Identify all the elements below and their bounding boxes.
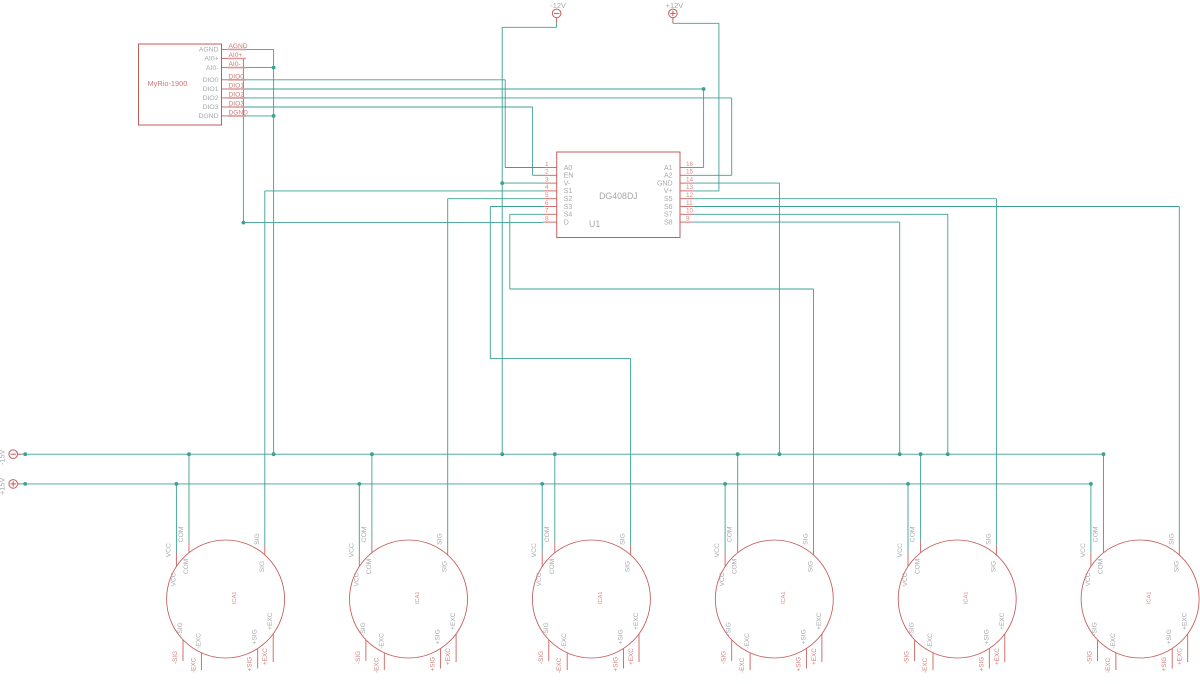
U1 pin 16 (A1) [680,167,694,169]
svg-text:VCC: VCC [714,543,721,557]
cell 2 pin -EXC [383,653,385,670]
svg-text:8: 8 [545,215,549,222]
wire V- vertical column [501,27,503,454]
svg-text:-EXC: -EXC [378,633,385,649]
cell 5 pin COM [920,542,922,553]
cell 5 pin SIG [995,545,997,555]
wire V+ horizontal [694,190,719,192]
cell 5 pin +EXC [1004,634,1006,662]
svg-text:-EXC: -EXC [1110,633,1117,649]
wire S3 vertical to cell 3 SIG [630,359,632,545]
svg-text:COM: COM [178,526,185,542]
U1 pin 3 (V-) [543,182,557,184]
U1 pin 1 (A0) [543,167,557,169]
wire A2 horizontal [694,174,732,176]
svg-text:-EXC: -EXC [1105,657,1112,673]
wire AGND horizontal [227,48,273,50]
svg-text:+EXC: +EXC [450,612,457,630]
wire S6 horizontal [694,206,1180,208]
MyRio pin DGND [222,115,228,117]
svg-text:-EXC: -EXC [195,633,202,649]
svg-text:+SIG: +SIG [247,657,254,672]
wire D horizontal [243,222,543,224]
cell 1 pin -EXC [200,653,202,670]
junction cell 4 COM / -15V rail [736,452,740,456]
svg-text:-EXC: -EXC [927,633,934,649]
load cell ICA1 #1 body [167,540,285,658]
load cell ICA1 #5 body [898,540,1016,658]
junction cell 1 COM / -15V rail [187,452,191,456]
svg-text:VCC: VCC [897,543,904,557]
cell 3 pin SIG [630,545,632,555]
svg-text:COM: COM [1093,526,1100,542]
cell 1 pin SIG [264,545,266,555]
junction S7 / -15V rail [946,452,950,456]
svg-text:-12V: -12V [550,1,566,10]
wire cell 4 COM to -15V rail [737,454,739,542]
wire DIO0 horizontal [227,79,505,81]
wire S7 horizontal [694,213,948,215]
junction cell 6 COM / -15V rail [1102,452,1106,456]
svg-text:-SIG: -SIG [726,622,733,636]
svg-text:5: 5 [545,192,549,199]
wire S8 vertical to rail [899,222,901,454]
net label DIO0 underline [228,79,246,81]
svg-text:-EXC: -EXC [556,657,563,673]
svg-text:ICA1: ICA1 [781,592,787,604]
wire S5 horizontal [694,198,997,200]
cell 1 pin +EXC [272,634,274,662]
svg-text:-SIG: -SIG [721,651,728,664]
wire +12V drop [672,22,674,25]
svg-text:+SIG: +SIG [983,629,990,644]
wire GND horizontal [694,182,780,184]
wire cell 4 VCC to +15V rail [724,484,726,553]
svg-text:GND: GND [657,180,673,187]
svg-text:DIO3: DIO3 [203,104,219,111]
MyRio pin AGND [222,48,228,50]
cell 1 pin -SIG [182,640,184,661]
U1 pin 5 (S2) [543,198,557,200]
svg-text:VCC: VCC [1080,543,1087,557]
svg-text:DIO2: DIO2 [203,95,219,102]
cell 4 pin VCC [724,552,726,566]
svg-text:10: 10 [686,208,694,215]
U1 pin 8 (D) [543,221,557,223]
wire S7 vertical to rail [947,214,949,454]
U1 pin 12 (S5) [680,198,694,200]
svg-text:U1: U1 [589,219,600,229]
svg-text:+EXC: +EXC [999,612,1006,630]
svg-text:S4: S4 [564,212,573,219]
MyRio pin DIO2 [222,97,228,99]
net label DIO3 underline [228,106,246,108]
svg-text:ICA1: ICA1 [1147,592,1153,604]
wire DIO3 horizontal [227,106,532,108]
net label AGND underline [228,48,246,50]
U1 pin 13 (V+) [680,190,694,192]
wire S4 horizontal 2 [510,288,814,290]
wire S1 horizontal [265,190,543,192]
cell 3 pin COM [554,542,556,553]
svg-text:9: 9 [686,215,690,222]
svg-text:VCC: VCC [1085,572,1092,586]
junction D corner [242,221,246,225]
svg-text:VCC: VCC [719,572,726,586]
svg-text:14: 14 [686,176,694,183]
cell 2 pin SIG [447,545,449,555]
power symbol +12V [669,9,678,22]
cell 3 pin +SIG [623,649,625,669]
svg-text:-SIG: -SIG [909,622,916,636]
IC MyRio-1900 body [139,44,222,125]
svg-text:-SIG: -SIG [1092,622,1099,636]
wire S2 vertical to cell 2 SIG [447,199,449,545]
svg-text:MyRio-1900: MyRio-1900 [148,79,188,88]
svg-text:+SIG: +SIG [252,629,259,644]
cell 4 pin COM [737,542,739,553]
svg-text:+12V: +12V [666,1,684,10]
load cell ICA1 #6 body [1081,540,1199,658]
svg-text:S2: S2 [564,196,573,203]
wire EN horizontal [533,174,543,176]
svg-text:+EXC: +EXC [811,648,818,665]
cell 4 pin -EXC [749,653,751,670]
svg-text:+EXC: +EXC [445,648,452,665]
svg-text:AGND: AGND [199,47,219,54]
junction V- column / -15V rail [500,452,504,456]
svg-text:VCC: VCC [902,572,909,586]
svg-text:+EXC: +EXC [1177,648,1184,665]
cell 5 pin +SIG [988,649,990,669]
wire S3 vertical [489,207,491,359]
cell 3 pin +EXC [638,634,640,662]
svg-text:+SIG: +SIG [1166,629,1173,644]
svg-text:DG408DJ: DG408DJ [599,191,638,201]
cell 1 pin +SIG [257,649,259,669]
cell 3 pin -SIG [548,640,550,661]
svg-text:VCC: VCC [348,543,355,557]
wire +15V rail [25,483,1091,485]
svg-text:ICA1: ICA1 [415,592,421,604]
svg-text:SIG: SIG [1168,533,1175,545]
svg-text:+SIG: +SIG [795,657,802,672]
svg-text:-EXC: -EXC [190,657,197,673]
cell 2 pin -SIG [365,640,367,661]
svg-text:S8: S8 [664,219,673,226]
svg-text:-EXC: -EXC [739,657,746,673]
svg-text:15: 15 [686,169,694,176]
svg-text:-SIG: -SIG [177,622,184,636]
svg-text:COM: COM [727,526,734,542]
svg-text:16: 16 [686,161,694,168]
U1 pin 14 (GND) [680,182,694,184]
U1 pin 11 (S6) [680,206,694,208]
junction cell 5 VCC / +15V rail [906,482,910,486]
svg-text:-SIG: -SIG [538,651,545,664]
junction cell 4 VCC / +15V rail [723,482,727,486]
junction DIO1 corner [702,87,706,91]
svg-text:S6: S6 [664,204,673,211]
svg-text:+SIG: +SIG [978,657,985,672]
junction cell 6 VCC / +15V rail [1089,482,1093,486]
svg-text:-SIG: -SIG [543,622,550,636]
svg-text:ICA1: ICA1 [598,592,604,604]
junction cell 2 COM / -15V rail [370,452,374,456]
wire DIO2 horizontal [227,97,731,99]
svg-text:-EXC: -EXC [561,633,568,649]
svg-text:COM: COM [915,559,922,574]
svg-text:S3: S3 [564,204,573,211]
wire S6 vertical to cell 6 SIG [1178,207,1180,545]
cell 6 pin -EXC [1115,653,1117,670]
svg-text:ICA1: ICA1 [964,592,970,604]
junction [23,452,27,456]
svg-text:+EXC: +EXC [262,648,269,665]
wire A1 horizontal [694,167,704,169]
cell 2 pin COM [371,542,373,553]
junction GND column / -15V rail [778,452,782,456]
svg-text:S5: S5 [664,196,673,203]
junction AI0-/AGND [272,66,276,70]
svg-text:COM: COM [549,559,556,574]
svg-text:SIG: SIG [625,561,632,572]
cell 3 pin -EXC [566,653,568,670]
net label DGND underline [228,115,246,117]
cell 1 pin VCC [175,552,177,566]
wire S3 horizontal [490,206,543,208]
junction [23,482,27,486]
wire S2 horizontal [448,198,543,200]
svg-text:-SIG: -SIG [172,651,179,664]
svg-text:13: 13 [686,184,694,191]
svg-text:COM: COM [1098,559,1105,574]
svg-text:-SIG: -SIG [355,651,362,664]
cell 6 pin COM [1103,542,1105,553]
cell 4 pin +EXC [821,634,823,662]
wire S4 horizontal [510,213,543,215]
wire -15V stub [22,453,26,455]
power symbol -12V [552,9,561,22]
net label AI0+ underline [228,58,246,60]
wire cell 5 COM to -15V rail [920,454,922,542]
svg-text:DIO1: DIO1 [203,86,219,93]
svg-text:AI0-: AI0- [206,65,218,72]
svg-text:A1: A1 [664,165,673,172]
svg-text:VCC: VCC [170,572,177,586]
wire DIO2 vertical to A2 [731,98,733,175]
svg-text:+SIG: +SIG [618,629,625,644]
MyRio pin DIO0 [222,79,228,81]
svg-text:VCC: VCC [353,572,360,586]
svg-text:COM: COM [910,526,917,542]
cell 4 pin -SIG [731,640,733,661]
svg-text:S7: S7 [664,212,673,219]
wire V- horizontal [502,182,543,184]
svg-text:12: 12 [686,192,694,199]
svg-text:SIG: SIG [442,561,449,572]
cell 6 pin +EXC [1187,634,1189,662]
svg-text:ICA1: ICA1 [232,592,238,604]
junction V- [500,181,504,185]
cell 3 pin VCC [541,552,543,566]
wire S3 horizontal 2 [490,358,630,360]
wire S8 horizontal [694,221,900,223]
MyRio pin DIO3 [222,106,228,108]
U1 pin 9 (S8) [680,221,694,223]
svg-text:-15V: -15V [0,449,7,465]
svg-text:-SIG: -SIG [904,651,911,664]
svg-text:SIG: SIG [254,533,261,545]
svg-text:S1: S1 [564,188,573,195]
svg-text:+EXC: +EXC [267,612,274,630]
MyRio pin DIO1 [222,88,228,90]
svg-text:+SIG: +SIG [613,657,620,672]
svg-text:AI0+: AI0+ [204,56,218,63]
wire cell 1 VCC to +15V rail [175,484,177,553]
wire S4 vertical [509,214,511,289]
net label DIO1 underline [228,88,246,90]
svg-text:A0: A0 [564,165,573,172]
U1 pin 7 (S4) [543,213,557,215]
wire cell 3 COM to -15V rail [554,454,556,542]
svg-text:VCC: VCC [536,572,543,586]
net label AI0- underline [228,67,246,69]
svg-text:3: 3 [545,176,549,183]
cell 2 pin +EXC [455,634,457,662]
wire S1 vertical to cell 1 SIG [264,191,266,545]
svg-text:+EXC: +EXC [1182,612,1189,630]
svg-text:A2: A2 [664,173,673,180]
svg-text:7: 7 [545,208,549,215]
wire +15V stub [22,483,26,485]
svg-text:+EXC: +EXC [633,612,640,630]
svg-text:+SIG: +SIG [800,629,807,644]
svg-text:COM: COM [544,526,551,542]
svg-text:V+: V+ [664,188,673,195]
wire DIO1 horizontal [227,88,703,90]
U1 pin 10 (S7) [680,213,694,215]
wire cell 2 VCC to +15V rail [358,484,360,553]
wire DGND horizontal [227,115,273,117]
svg-text:-SIG: -SIG [1087,651,1094,664]
svg-text:SIG: SIG [259,561,266,572]
cell 6 pin +SIG [1171,649,1173,669]
wire AI0+ vertical column [242,59,244,223]
wire cell 1 COM to -15V rail [188,454,190,542]
svg-text:+SIG: +SIG [435,629,442,644]
svg-text:D: D [564,219,569,226]
svg-text:COM: COM [183,559,190,574]
junction DGND/AGND [272,114,276,118]
wire A0 horizontal [505,167,543,169]
wire +12V horizontal [673,22,719,24]
svg-text:DIO0: DIO0 [203,77,219,84]
svg-text:COM: COM [732,559,739,574]
net label DIO2 underline [228,97,246,99]
svg-text:-EXC: -EXC [744,633,751,649]
junction cell 2 VCC / +15V rail [357,482,361,486]
MyRio pin AI0+ [222,58,228,60]
svg-text:+15V: +15V [0,477,7,495]
svg-text:6: 6 [545,200,549,207]
svg-text:1: 1 [545,161,549,168]
svg-text:2: 2 [545,169,549,176]
svg-text:VCC: VCC [531,543,538,557]
wire cell 5 VCC to +15V rail [907,484,909,553]
load cell ICA1 #3 body [532,540,650,658]
cell 5 pin -EXC [932,653,934,670]
U1 pin 15 (A2) [680,174,694,176]
svg-text:+EXC: +EXC [628,648,635,665]
op-amp/mux U1 DG408DJ body [557,152,680,238]
cell 6 pin SIG [1178,545,1180,555]
wire S5 vertical to cell 5 SIG [995,199,997,545]
wire cell 3 VCC to +15V rail [541,484,543,553]
junction S8 / -15V rail [898,452,902,456]
cell 5 pin -SIG [914,640,916,661]
power symbol +15V [9,480,22,489]
cell 2 pin VCC [358,552,360,566]
wire DIO0 vertical to A0 [504,80,506,168]
svg-text:+SIG: +SIG [430,657,437,672]
wire AI0+ horizontal [227,58,243,60]
junction cell 1 VCC / +15V rail [175,482,179,486]
cell 4 pin SIG [813,545,815,555]
wire -15V rail [25,453,1103,455]
wire -12V horizontal [502,26,556,28]
cell 4 pin +SIG [805,649,807,669]
svg-text:SIG: SIG [620,533,627,545]
junction cell 5 COM / -15V rail [919,452,923,456]
wire cell 6 VCC to +15V rail [1090,484,1092,553]
svg-text:SIG: SIG [808,561,815,572]
U1 pin 2 (EN) [543,174,557,176]
U1 pin 6 (S3) [543,206,557,208]
svg-text:+EXC: +EXC [816,612,823,630]
cell 6 pin VCC [1090,552,1092,566]
wire AGND vertical column [273,49,275,454]
svg-text:+SIG: +SIG [1161,657,1168,672]
svg-text:-EXC: -EXC [373,657,380,673]
svg-text:SIG: SIG [803,533,810,545]
svg-text:VCC: VCC [165,543,172,557]
svg-text:+EXC: +EXC [994,648,1001,665]
svg-text:SIG: SIG [437,533,444,545]
junction cell 3 COM / -15V rail [553,452,557,456]
svg-text:DGND: DGND [198,113,218,120]
wire GND vertical to rail [778,183,780,454]
svg-text:V-: V- [564,180,571,187]
svg-text:SIG: SIG [985,533,992,545]
wire cell 6 COM to -15V rail [1103,454,1105,542]
junction AGND column / -15V rail [272,452,276,456]
MyRio pin AI0- [222,67,228,69]
svg-text:11: 11 [686,200,693,207]
power symbol -15V [9,450,22,459]
svg-text:-EXC: -EXC [922,657,929,673]
U1 pin 4 (S1) [543,190,557,192]
cell 2 pin +SIG [440,649,442,669]
cell 1 pin COM [188,542,190,553]
wire +12V vertical to V+ [718,23,720,191]
wire -12V drop [556,23,558,28]
junction cell 3 VCC / +15V rail [540,482,544,486]
svg-text:-SIG: -SIG [360,622,367,636]
cell 5 pin VCC [907,552,909,566]
load cell ICA1 #2 body [350,540,468,658]
wire cell 2 COM to -15V rail [371,454,373,542]
